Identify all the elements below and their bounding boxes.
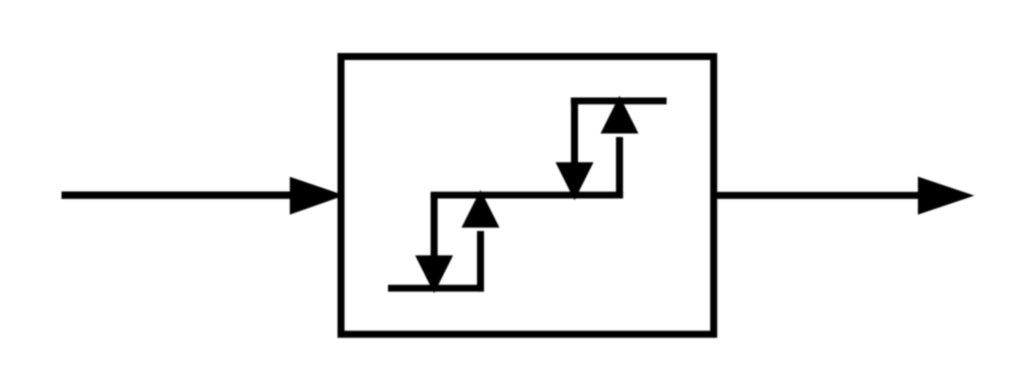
arrowhead: output arrow: [918, 177, 975, 215]
arrowhead: lower falling transition (down): [415, 255, 453, 293]
wire: top quantization level segment: [571, 98, 667, 105]
wire: output signal line: [714, 192, 924, 199]
wire: upper falling transition stem: [571, 101, 578, 167]
wire: middle quantization level segment: [431, 192, 623, 199]
arrowhead: lower rising transition (up): [462, 190, 500, 228]
wire: lower falling transition stem: [431, 195, 438, 261]
wire: upper rising transition stem: [616, 137, 623, 198]
block U1: quantizer box outline: [338, 53, 718, 338]
wire: bottom quantization level segment: [388, 285, 484, 292]
arrowhead: upper falling transition (down): [556, 162, 594, 200]
arrowhead: upper rising transition (up): [601, 96, 639, 134]
wire: lower rising transition stem: [477, 231, 484, 292]
wire: input signal line: [62, 192, 295, 199]
arrowhead: input arrow into quantizer block: [290, 177, 345, 215]
